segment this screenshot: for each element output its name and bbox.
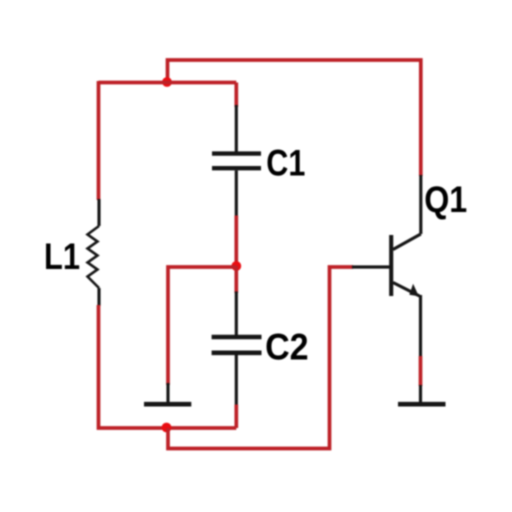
capacitor C1 xyxy=(212,105,261,217)
transistor Q1 emitter arrowhead xyxy=(409,284,419,296)
wire left rail upper (down to L1) xyxy=(97,81,101,200)
wire upper horizontal (L1 top to C1 top) xyxy=(99,81,237,85)
svg-text:C2: C2 xyxy=(265,326,309,368)
junction dot bottom rail xyxy=(162,423,172,433)
wire top horizontal (node to Q1 collector) xyxy=(168,60,421,176)
capacitor C2 xyxy=(212,292,262,407)
ground left xyxy=(144,383,191,404)
wire mid node to ground stem xyxy=(168,267,236,385)
inductor L1 xyxy=(88,199,100,306)
transistor Q1 xyxy=(391,234,421,296)
transistor Q1 base lead black xyxy=(352,265,390,268)
wire C1 bottom lead red xyxy=(234,216,238,267)
svg-text:Q1: Q1 xyxy=(424,178,467,220)
node junction dot top xyxy=(162,77,172,87)
wire C1 top lead red xyxy=(234,83,238,108)
junction dot mid node xyxy=(231,261,241,271)
wire C2 bottom lead red xyxy=(234,405,238,429)
transistor Q1 emitter lead black upper xyxy=(419,295,422,357)
wire C2 top lead red xyxy=(234,266,238,293)
wire left rail lower (L1 bottom to bottom rail) xyxy=(99,305,237,428)
ground right xyxy=(398,385,446,404)
transistor Q1 collector lead black xyxy=(419,175,422,234)
svg-text:L1: L1 xyxy=(44,235,80,277)
svg-text:C1: C1 xyxy=(266,142,305,184)
wire emitter red segment xyxy=(419,356,423,386)
wire feedback (bottom rail to Q1 base) xyxy=(168,267,353,449)
